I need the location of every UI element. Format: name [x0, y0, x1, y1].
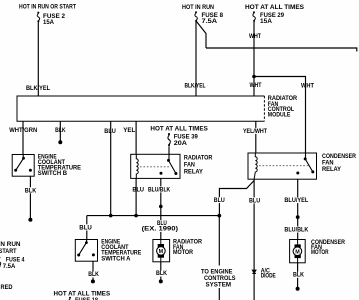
svg-text:MOTOR: MOTOR	[311, 249, 329, 256]
svg-text:BLU: BLU	[249, 197, 260, 204]
svg-text:BLK: BLK	[293, 271, 304, 278]
wire relay coil return to bus	[135, 178, 137, 215]
condenser relay blade	[305, 153, 313, 172]
wire fuse8 to module	[195, 21, 197, 97]
fuse F18 partial bottom	[69, 297, 71, 300]
label BLK condenser motor	[292, 271, 305, 278]
label ENGINE COOLANT TEMPERATURE SWITCH A	[101, 238, 141, 262]
node dot switch A BLK end	[91, 279, 95, 283]
label CONDENSER FAN MOTOR	[311, 239, 345, 256]
condenser relay switch contacts	[296, 157, 314, 174]
junction dot radiator output wire	[159, 205, 163, 209]
node dot condenser motor BLK end	[296, 287, 300, 291]
svg-text:WHT: WHT	[249, 33, 262, 40]
wire radiator motor BLK	[160, 262, 162, 280]
svg-text:BLK: BLK	[55, 127, 66, 134]
svg-text:WHT/GRN: WHT/GRN	[9, 127, 37, 134]
svg-text:SWITCH B: SWITCH B	[38, 170, 68, 177]
svg-text:SYSTEM: SYSTEM	[206, 281, 232, 288]
switch B contacts	[14, 157, 32, 172]
switch A contacts	[77, 241, 95, 256]
label RADIATOR FAN RELAY	[184, 154, 213, 175]
svg-text:SWITCH A: SWITCH A	[101, 255, 131, 262]
wire to engine controls system	[218, 216, 220, 300]
svg-text:20A: 20A	[174, 140, 187, 147]
svg-text:DIODE: DIODE	[261, 272, 276, 279]
svg-text:YEL/WHT: YEL/WHT	[243, 128, 268, 135]
radiator relay armature dashed link	[140, 166, 170, 168]
wire BLU module pin to bus	[110, 121, 112, 215]
svg-text:WHT: WHT	[250, 82, 263, 89]
wire fuse2 to module	[37, 22, 39, 96]
wire bus to switch A	[86, 216, 88, 243]
wire BLK stub below module	[59, 121, 61, 141]
svg-text:BLU: BLU	[79, 224, 92, 231]
wire condenser motor BLK	[297, 263, 299, 287]
svg-text:M: M	[295, 249, 300, 255]
svg-text:BLK: BLK	[88, 271, 99, 278]
label BLU/BLK condenser	[284, 227, 310, 234]
wire module to switch B WHT/GRN	[22, 121, 24, 158]
svg-text:(EX. 1990): (EX. 1990)	[142, 226, 178, 233]
junction dot bus right end	[217, 214, 221, 218]
A/C diode D1	[252, 270, 256, 273]
radiator motor symbol	[157, 240, 166, 262]
svg-text:FAN: FAN	[184, 161, 195, 168]
radiator relay coil	[136, 154, 138, 178]
switch A box	[75, 240, 97, 262]
label RADIATOR FAN MOTOR	[173, 239, 202, 257]
svg-text:RELAY: RELAY	[184, 168, 203, 175]
svg-text:BLU/YEL: BLU/YEL	[284, 197, 308, 204]
svg-text:BLU: BLU	[214, 197, 225, 204]
switch B box	[12, 155, 34, 177]
switch B blade	[16, 155, 24, 171]
svg-text:BLK: BLK	[25, 187, 37, 194]
wire bus horizontal	[87, 215, 219, 217]
wire radiator relay output to motor	[160, 178, 162, 239]
label TO ENGINE CONTROLS SYSTEM	[201, 268, 236, 288]
node dot radiator motor BLK end	[159, 279, 163, 283]
radiator relay switch contacts	[160, 159, 178, 175]
label ENGINE COOLANT TEMPERATURE SWITCH B	[38, 154, 81, 177]
label BLK switch B	[24, 187, 37, 194]
wire fuse39 to relay	[168, 146, 170, 160]
svg-text:YEL: YEL	[123, 127, 135, 134]
node dot BLK stub end	[58, 140, 62, 144]
wire condenser coil return to A/C diode	[253, 179, 255, 300]
wire condenser relay output BLU/YEL	[297, 179, 299, 239]
wire WHT horizontal top bus	[206, 48, 357, 52]
junction dot WHT branch	[252, 75, 256, 79]
svg-text:15A: 15A	[260, 18, 272, 25]
svg-text:HOT AT ALL TIMES: HOT AT ALL TIMES	[150, 125, 208, 132]
node dot switch B BLK end	[28, 218, 32, 222]
label BLU diode wire	[248, 197, 261, 204]
junction dot bus BLU	[109, 214, 113, 218]
svg-text:HOT AT ALL TIMES: HOT AT ALL TIMES	[245, 4, 305, 11]
radiator fan relay K1 box	[131, 154, 180, 178]
fuse F8	[195, 11, 197, 22]
label EX 1990	[141, 226, 179, 233]
wire fuse8 branch diagonal to WHT bus	[197, 22, 207, 49]
fuse F39	[168, 133, 170, 146]
svg-text:MODULE: MODULE	[268, 112, 291, 119]
wire fuse29 WHT down to module	[253, 22, 255, 96]
svg-text:HOT IN RUN: HOT IN RUN	[0, 241, 21, 248]
wire YEL module pin to relay coil	[135, 121, 137, 154]
svg-text:BLK/YEL: BLK/YEL	[185, 82, 206, 89]
wire YEL/WHT module to condenser coil	[255, 121, 257, 153]
label BLK radiator motor	[155, 270, 168, 277]
wire WHT branch to condenser relay	[254, 77, 306, 159]
svg-text:BLU: BLU	[132, 186, 144, 193]
label CONDENSER FAN RELAY	[322, 153, 356, 173]
svg-text:MOTOR: MOTOR	[173, 249, 193, 256]
svg-text:HOT IN RUN OR START: HOT IN RUN OR START	[19, 3, 77, 10]
wire condenser coil branch to engine controls	[219, 181, 254, 216]
fuse F2	[37, 12, 39, 23]
svg-text:BLU/BLK: BLU/BLK	[148, 186, 170, 193]
radiator fan control module U1 box	[17, 96, 264, 121]
condenser relay coil	[254, 153, 257, 179]
svg-text:15A: 15A	[43, 19, 54, 26]
svg-text:7.5A: 7.5A	[3, 263, 16, 270]
fuse F4 partial left edge	[0, 257, 1, 268]
svg-text:7.5A: 7.5A	[202, 18, 218, 25]
svg-text:HOT IN RUN: HOT IN RUN	[182, 4, 214, 11]
svg-text:M: M	[159, 249, 164, 255]
fuse F29	[253, 11, 255, 22]
label BLU above radiator motor	[156, 220, 167, 227]
svg-text:OR START: OR START	[0, 248, 17, 255]
label BLU switch A	[79, 224, 93, 231]
svg-text:BLK/YEL: BLK/YEL	[26, 85, 50, 92]
condenser fan relay K2 box	[248, 153, 317, 179]
svg-text:BLK: BLK	[156, 270, 167, 277]
label BLK switch A	[88, 271, 100, 278]
junction dot condenser output wire	[296, 215, 300, 219]
svg-text:BLU/BLK: BLU/BLK	[284, 227, 308, 234]
radiator fan motor M1 box	[153, 240, 170, 262]
condenser motor symbol	[293, 240, 302, 263]
wire switch A output BLK	[92, 255, 94, 280]
wire switch B output BLK	[29, 170, 31, 218]
label RADIATOR FAN CONTROL MODULE	[268, 95, 298, 119]
label BLU/BLK relay output	[147, 186, 171, 193]
label BLU engine controls wire	[213, 197, 226, 204]
switch A blade	[79, 240, 87, 256]
radiator relay blade	[169, 154, 176, 173]
label A/C DIODE	[261, 268, 276, 280]
svg-text:BLU: BLU	[104, 128, 116, 135]
svg-text:RED: RED	[1, 284, 13, 291]
junction dot bus relay return	[134, 214, 138, 218]
label YEL/WHT	[242, 128, 268, 135]
svg-text:RADIATOR: RADIATOR	[184, 154, 213, 161]
label BLU/YEL	[284, 197, 310, 204]
svg-text:WHT: WHT	[301, 83, 315, 90]
condenser fan motor M2 box	[290, 240, 306, 263]
condenser relay armature dashed link	[259, 165, 310, 167]
svg-text:RELAY: RELAY	[322, 166, 341, 173]
